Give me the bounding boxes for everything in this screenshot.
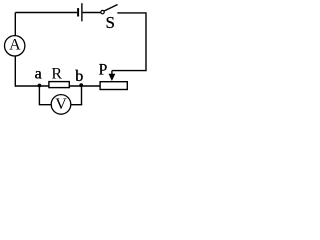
svg-text:R: R [51, 65, 62, 82]
svg-text:a: a [35, 65, 42, 82]
svg-text:P: P [99, 62, 108, 79]
svg-text:A: A [9, 37, 21, 54]
svg-text:S: S [105, 13, 114, 32]
svg-text:b: b [75, 68, 83, 85]
svg-text:V: V [55, 96, 67, 113]
